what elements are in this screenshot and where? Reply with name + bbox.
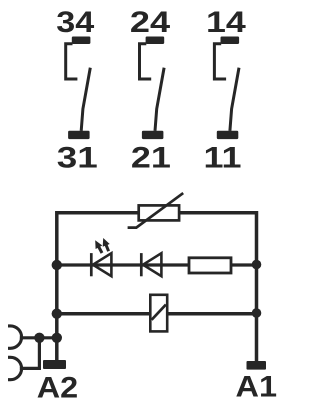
- svg-text:A1: A1: [236, 370, 278, 403]
- svg-text:14: 14: [206, 6, 246, 39]
- svg-text:31: 31: [57, 141, 98, 174]
- svg-text:A2: A2: [37, 372, 78, 405]
- svg-text:11: 11: [204, 141, 242, 174]
- svg-text:24: 24: [130, 6, 171, 39]
- svg-text:34: 34: [56, 6, 94, 39]
- svg-text:21: 21: [131, 141, 171, 174]
